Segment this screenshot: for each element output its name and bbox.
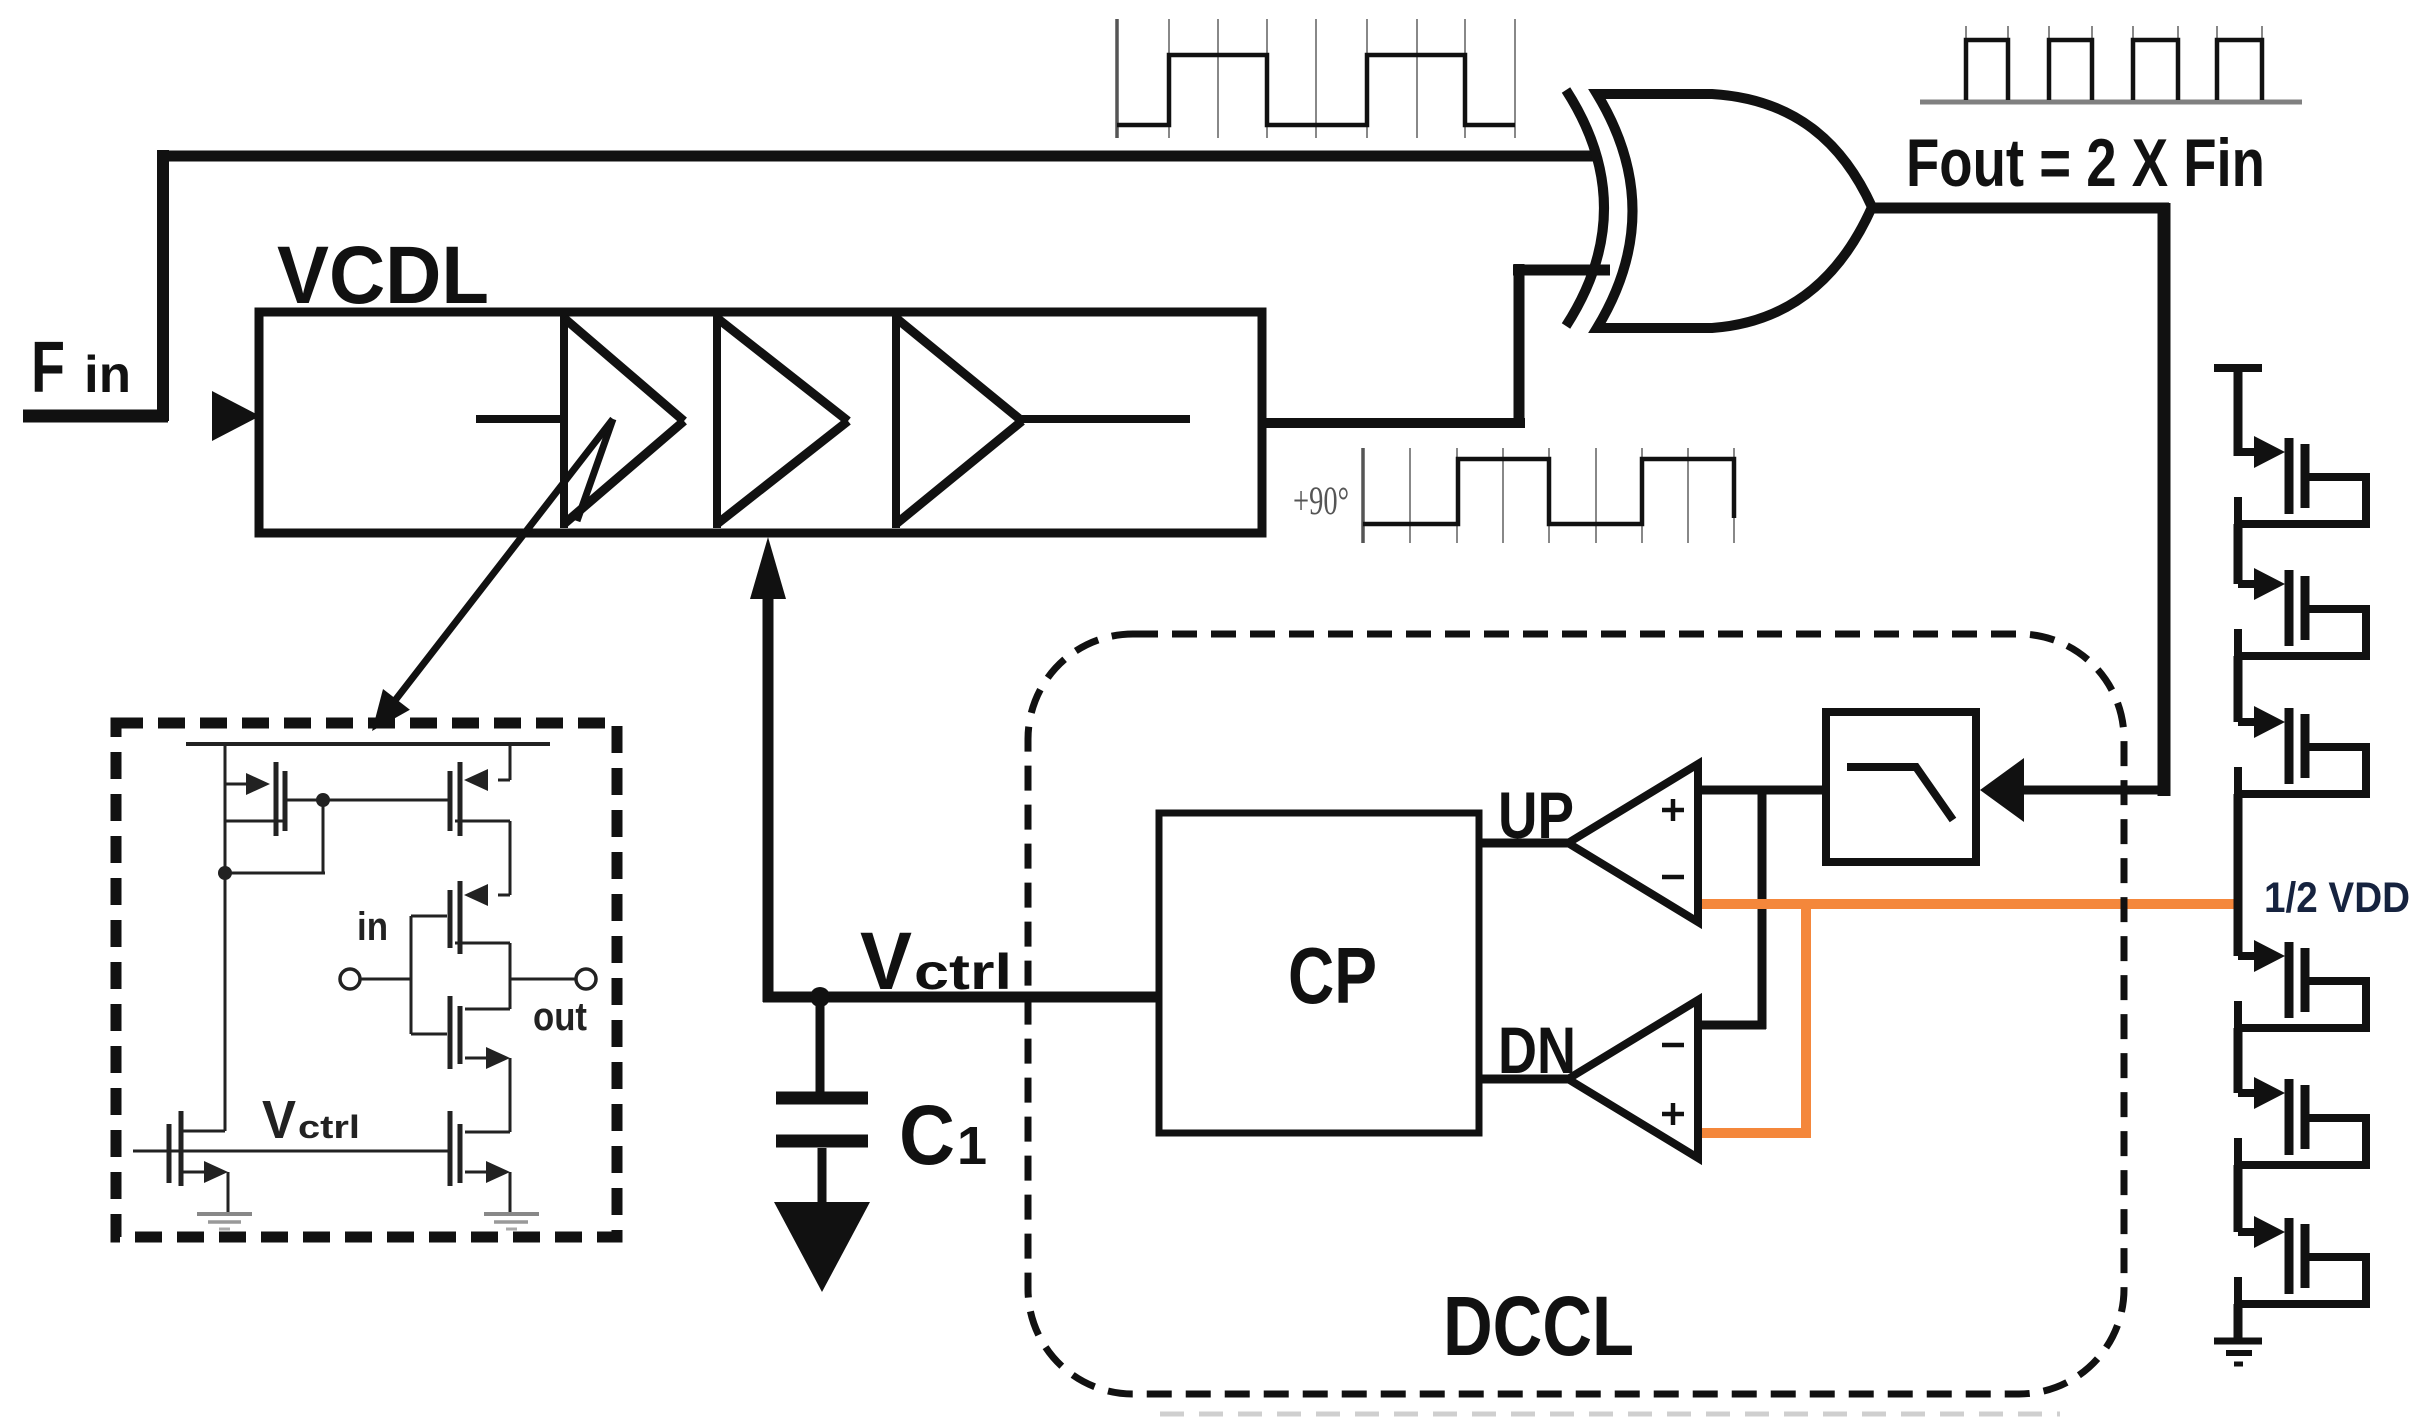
svg-text:out: out	[533, 995, 587, 1039]
arrowhead into VCDL input	[212, 391, 260, 441]
XOR gate U2 extra input arc	[1566, 90, 1604, 326]
wire ladder rail segment below M3	[2234, 794, 2243, 956]
DCCL dashed boundary	[1028, 634, 2124, 1394]
svg-text:in: in	[357, 905, 388, 949]
wire buffer A3 output stub	[1022, 415, 1190, 423]
transistor M1 gate lead	[2238, 448, 2256, 456]
waveform Fout baseline	[1920, 100, 2302, 105]
buffer A1	[560, 316, 568, 528]
ghost dashed figure border bottom	[1160, 1412, 2060, 1417]
wire UP output	[1479, 839, 1572, 848]
wire DN output	[1479, 1075, 1572, 1084]
wire VCDL internal input stub	[476, 415, 566, 423]
detail transistor P2 (top right PMOS)	[509, 744, 512, 780]
port in	[340, 969, 360, 989]
detail transistor N3 (bottom left NMOS)	[181, 1130, 225, 1133]
transistor M2 gate bar	[2285, 570, 2294, 646]
variable-delay slash on buffer A1	[577, 419, 613, 521]
transistor M4 gate lead	[2238, 952, 2256, 960]
svg-text:1/2 VDD: 1/2 VDD	[2264, 874, 2410, 922]
ground arrow below C1	[774, 1202, 870, 1292]
transistor M4 channel bar	[2301, 948, 2310, 1012]
svg-text:ctrl: ctrl	[914, 944, 1012, 1000]
node mirror wire	[287, 799, 449, 802]
wire ladder rail segment below M6	[2234, 1304, 2243, 1341]
arrowhead into loop filter	[1980, 758, 2024, 822]
wire XOR lower input	[1513, 265, 1610, 276]
wire Fin to XOR top input	[157, 151, 1598, 162]
filter response glyph	[1847, 767, 1953, 820]
waveform Fout trace	[1965, 26, 1967, 44]
svg-text:DN: DN	[1498, 1013, 1576, 1087]
wire 1/2 VDD branch vertical (orange)	[1801, 904, 1811, 1138]
wire VCDL output riser	[1514, 264, 1525, 428]
wire ladder rail segment below M2	[2234, 656, 2243, 722]
wire Vctrl node to C1	[816, 997, 825, 1095]
svg-text:V: V	[860, 916, 912, 1007]
capacitor C1 plates	[776, 1092, 868, 1105]
node in bus	[410, 916, 413, 1034]
port out	[510, 978, 576, 981]
svg-text:F: F	[31, 328, 65, 408]
waveform +90 grid	[1361, 448, 1365, 543]
transistor M5 source wrap wire	[2234, 1161, 2370, 1169]
svg-text:UP: UP	[1498, 778, 1574, 852]
comparator U5 DN	[1568, 1000, 1698, 1158]
wire Vctrl riser to VCDL	[763, 560, 774, 1002]
wire into loop filter	[2016, 786, 2170, 795]
transistor M2 source wrap wire	[2234, 652, 2370, 660]
wire Vctrl horizontal	[763, 992, 1162, 1003]
detail transistor P1 (top left PMOS)	[224, 744, 227, 1131]
transistor M1 gate bar	[2285, 438, 2294, 514]
detail VDD rail	[186, 742, 550, 746]
transistor M5 channel bar	[2301, 1085, 2310, 1149]
svg-text:V: V	[262, 1090, 296, 1150]
svg-text:CP: CP	[1288, 931, 1377, 1020]
transistor M4 drain lead	[2305, 977, 2366, 985]
transistor M5 gate bar	[2285, 1079, 2294, 1155]
svg-text:1: 1	[957, 1116, 987, 1176]
transistor M2 gate lead	[2238, 580, 2256, 588]
detail transistor P3 (middle PMOS)	[498, 894, 510, 897]
wire ladder rail segment below M4	[2234, 1028, 2243, 1093]
ground under N3	[197, 1212, 252, 1216]
detail Vctrl gate line	[133, 1150, 450, 1153]
transistor M1 source wrap wire	[2234, 520, 2370, 528]
svg-text:ctrl: ctrl	[298, 1109, 360, 1145]
transistor M3 source wrap wire	[2234, 790, 2370, 798]
callout arrow from buffer A1 to delay cell detail	[383, 419, 613, 716]
transistor M3 channel bar	[2301, 714, 2310, 778]
transistor M6 gate bar	[2285, 1218, 2294, 1294]
waveform Fin clock grid	[1115, 19, 1119, 138]
transistor M3 gate bar	[2285, 708, 2294, 784]
wire Fin branch vertical	[157, 150, 169, 421]
wire 1/2 VDD reference horizontal (orange)	[1700, 899, 2241, 909]
arrowhead into VCDL bottom	[750, 537, 786, 599]
wire XOR output riser down	[2158, 203, 2171, 796]
wire comparator junction riser	[1758, 786, 1767, 1029]
transistor M6 source wrap wire	[2234, 1300, 2370, 1308]
wire C1 to ground	[818, 1148, 827, 1206]
transistor M5 gate lead	[2238, 1089, 2256, 1097]
transistor M4 source wrap wire	[2234, 1024, 2370, 1032]
transistor M3 gate lead	[2238, 718, 2256, 726]
svg-text:C: C	[899, 1088, 955, 1182]
charge pump CP box	[1159, 813, 1479, 1133]
transistor M1 channel bar	[2301, 444, 2310, 508]
wire filter output to comparator junction	[1698, 786, 1830, 795]
waveform +90 trace	[1363, 459, 1734, 524]
junction dot Vctrl node	[810, 987, 830, 1007]
filter box U3	[1826, 712, 1976, 862]
comparator U4 UP	[1568, 764, 1698, 922]
transistor M6 channel bar	[2301, 1224, 2310, 1288]
svg-text:VCDL: VCDL	[277, 230, 489, 321]
transistor M3 drain lead	[2305, 743, 2366, 751]
waveform Fin clock trace	[1117, 55, 1515, 125]
ground under N2	[484, 1212, 539, 1216]
svg-text:DCCL: DCCL	[1443, 1279, 1634, 1373]
svg-text:+90°: +90°	[1293, 478, 1349, 523]
buffer A3	[892, 316, 900, 528]
VDD stub at ladder top	[2214, 364, 2262, 372]
delay cell detail dashed box	[116, 723, 617, 1237]
transistor M6 gate lead	[2238, 1228, 2256, 1236]
wire 1/2 VDD branch to DN plus (orange)	[1700, 1128, 1811, 1138]
wire Fin input horizontal	[23, 410, 168, 423]
detail transistor N2 (bottom right NMOS)	[465, 1131, 510, 1134]
transistor M6 drain lead	[2305, 1253, 2366, 1261]
transistor M1 drain lead	[2305, 473, 2366, 481]
transistor M2 drain lead	[2305, 605, 2366, 613]
XOR gate U2 body	[1597, 94, 1872, 328]
transistor M2 channel bar	[2301, 576, 2310, 640]
svg-text:Fout = 2 X Fin: Fout = 2 X Fin	[1906, 125, 2265, 201]
detail transistor N1 (middle NMOS)	[448, 996, 453, 1069]
buffer A2	[713, 316, 721, 528]
wire XOR output horizontal	[1870, 203, 2169, 214]
wire DN minus input	[1698, 1021, 1766, 1030]
VCDL box	[259, 312, 1262, 533]
transistor M5 drain lead	[2305, 1114, 2366, 1122]
wire ladder rail segment below M5	[2234, 1165, 2243, 1232]
wire ladder rail segment below M1	[2234, 524, 2243, 584]
ground at ladder bottom	[2214, 1338, 2262, 1345]
wire VCDL output horizontal	[1262, 418, 1525, 428]
transistor M4 gate bar	[2285, 942, 2294, 1018]
svg-text:in: in	[84, 346, 131, 404]
